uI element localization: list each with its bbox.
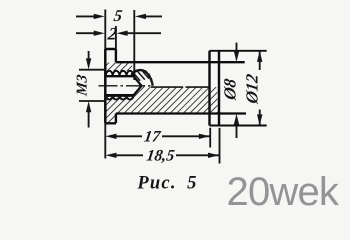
thread crest scallops top	[106, 71, 134, 76]
body bottom edge (Ø8)	[116, 112, 246, 114]
section boundary line along axis	[151, 86, 210, 88]
svg-text:20wek: 20wek	[227, 170, 340, 214]
svg-text:18,5: 18,5	[145, 148, 175, 165]
part left face	[104, 49, 107, 123]
body top edge (Ø8)	[116, 61, 245, 63]
flange bottom edge + Ø12 extension line	[210, 125, 267, 127]
right flange outline (Ø12)	[210, 51, 220, 126]
svg-text:Рис. 5: Рис. 5	[136, 174, 197, 194]
dimension 2: extension line	[115, 26, 117, 49]
drill cone	[134, 76, 142, 95]
svg-text:M3: M3	[75, 73, 91, 98]
collar outline (left flange, 2 wide)	[105, 49, 116, 123]
dome hatch strokes	[134, 70, 153, 85]
flange top edge + Ø12 extension line	[210, 50, 267, 52]
hatch region: bottom half section band	[106, 86, 218, 123]
hatch region: top thread band	[106, 63, 132, 71]
dimension 18,5: line and arrows	[115, 154, 219, 156]
centerline (axis, dash-dot)	[99, 85, 152, 87]
dimension 17: extension lines	[105, 123, 210, 158]
dimension M3: extension lines	[79, 70, 105, 101]
dimension 5: extension lines	[105, 10, 134, 81]
svg-text:Ø12: Ø12	[243, 72, 262, 105]
dimension Ø12: line and arrows	[259, 51, 261, 125]
threaded hole M3 bottom wall	[105, 94, 133, 97]
thread end dome arc	[131, 70, 152, 86]
dimension Ø8: arrows	[236, 43, 238, 138]
threaded hole M3 top wall	[105, 75, 133, 77]
dimension 5: arrows	[76, 15, 162, 17]
dimension M3: arrows	[88, 51, 90, 128]
dimension 2: arrows	[76, 32, 161, 34]
dimension 18,5: extension line	[219, 128, 221, 164]
svg-text:Ø8: Ø8	[221, 77, 240, 102]
dimension 17: line and arrows	[115, 135, 210, 137]
thread crest scallops bottom	[106, 95, 134, 99]
